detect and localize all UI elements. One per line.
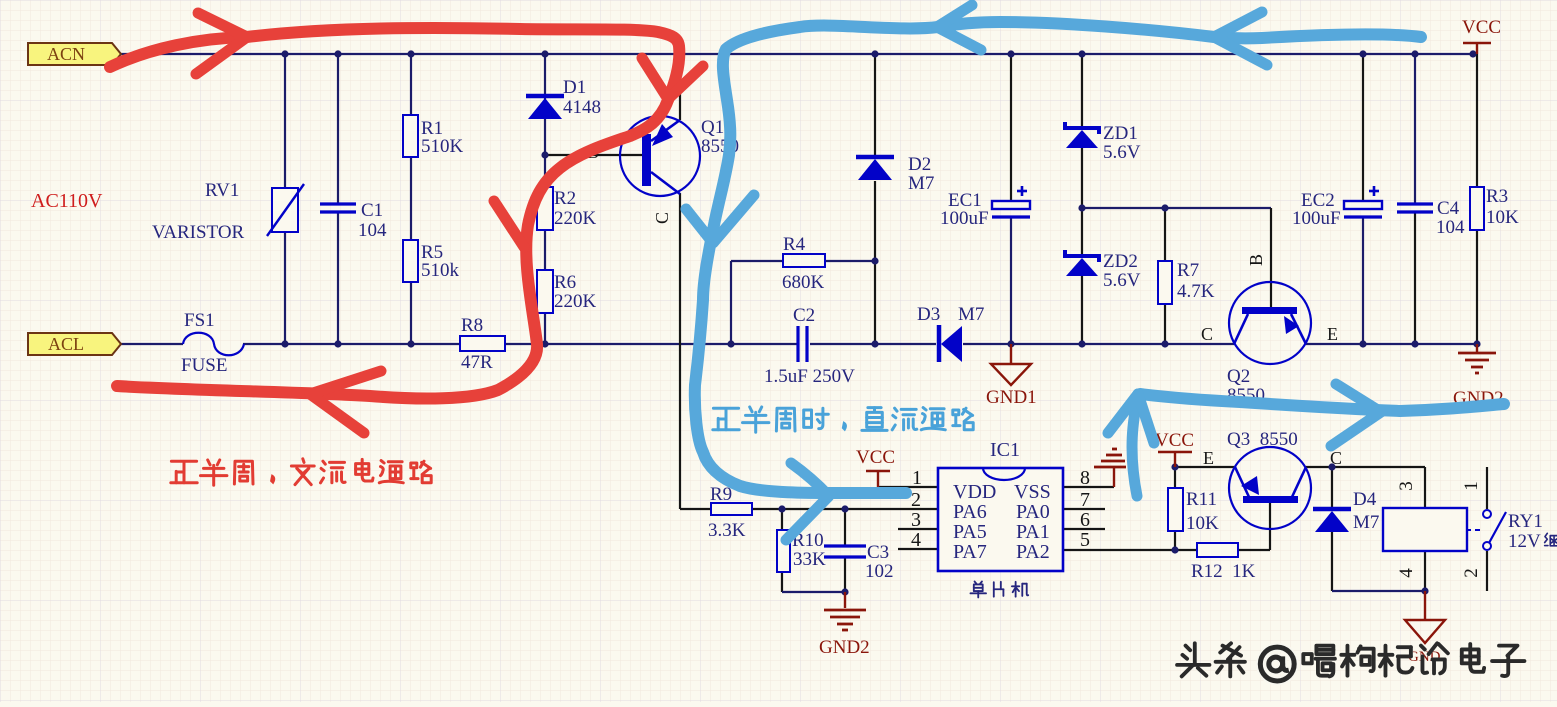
- svg-text:5.6V: 5.6V: [1103, 142, 1141, 163]
- svg-text:R3: R3: [1486, 186, 1508, 207]
- svg-text:D2: D2: [908, 154, 931, 175]
- svg-text:680K: 680K: [782, 272, 825, 293]
- svg-text:510K: 510K: [421, 136, 464, 157]
- svg-text:ZD2: ZD2: [1103, 251, 1138, 272]
- svg-text:8: 8: [1080, 467, 1090, 489]
- svg-text:100uF: 100uF: [940, 208, 989, 229]
- svg-text:VCC: VCC: [856, 447, 895, 468]
- svg-text:M7: M7: [908, 173, 934, 194]
- svg-text:VCC: VCC: [1155, 430, 1194, 451]
- svg-text:10K: 10K: [1186, 513, 1219, 534]
- svg-text:PA7: PA7: [953, 541, 987, 563]
- svg-text:ZD1: ZD1: [1103, 123, 1138, 144]
- svg-text:2: 2: [911, 489, 921, 511]
- svg-text:PA0: PA0: [1016, 501, 1050, 523]
- svg-text:PA6: PA6: [953, 501, 987, 523]
- svg-text:M7: M7: [958, 304, 984, 325]
- svg-text:2: 2: [1461, 568, 1482, 578]
- svg-text:6: 6: [1080, 509, 1090, 531]
- svg-text:4: 4: [1396, 568, 1417, 578]
- svg-text:100uF: 100uF: [1292, 208, 1341, 229]
- svg-text:RY1: RY1: [1508, 511, 1543, 532]
- svg-text:E: E: [1327, 324, 1338, 344]
- svg-text:M7: M7: [1353, 512, 1379, 533]
- svg-text:ACL: ACL: [48, 334, 84, 354]
- svg-text:ACN: ACN: [47, 44, 85, 64]
- svg-text:VDD: VDD: [953, 481, 996, 503]
- svg-text:510k: 510k: [421, 260, 460, 281]
- svg-text:GND2: GND2: [819, 637, 870, 658]
- svg-text:12V: 12V: [1508, 531, 1541, 552]
- svg-text:4148: 4148: [563, 97, 601, 118]
- svg-text:1: 1: [1461, 481, 1482, 491]
- svg-text:102: 102: [865, 561, 894, 582]
- svg-text:VARISTOR: VARISTOR: [152, 222, 245, 243]
- svg-text:C3: C3: [867, 542, 889, 563]
- svg-text:FUSE: FUSE: [181, 355, 227, 376]
- svg-text:PA2: PA2: [1016, 541, 1050, 563]
- svg-text:1.5uF 250V: 1.5uF 250V: [764, 366, 855, 387]
- svg-text:R8: R8: [461, 315, 483, 336]
- svg-text:C: C: [652, 212, 672, 224]
- svg-text:R4: R4: [783, 234, 806, 255]
- svg-text:3: 3: [911, 509, 921, 531]
- svg-text:47R: 47R: [461, 352, 493, 373]
- svg-text:R11: R11: [1186, 489, 1217, 510]
- svg-text:Q3 8550: Q3 8550: [1227, 429, 1298, 450]
- svg-text:B: B: [1246, 254, 1266, 266]
- svg-text:10K: 10K: [1486, 207, 1519, 228]
- svg-text:E: E: [1203, 448, 1214, 468]
- svg-text:R2: R2: [554, 188, 576, 209]
- svg-text:C1: C1: [361, 200, 383, 221]
- svg-text:Q1: Q1: [701, 117, 724, 138]
- svg-text:33K: 33K: [793, 549, 826, 570]
- svg-text:FS1: FS1: [184, 310, 215, 331]
- svg-text:C2: C2: [793, 305, 815, 326]
- svg-text:7: 7: [1080, 489, 1090, 511]
- svg-text:C4: C4: [1437, 198, 1460, 219]
- svg-text:D4: D4: [1353, 489, 1377, 510]
- svg-text:3.3K: 3.3K: [708, 520, 746, 541]
- svg-text:C: C: [1201, 324, 1213, 344]
- svg-text:VSS: VSS: [1014, 481, 1051, 503]
- svg-text:R12 1K: R12 1K: [1191, 561, 1256, 582]
- svg-text:R7: R7: [1177, 260, 1199, 281]
- svg-text:D1: D1: [563, 77, 586, 98]
- svg-text:GND1: GND1: [986, 387, 1037, 408]
- svg-text:104: 104: [358, 220, 387, 241]
- svg-text:R6: R6: [554, 272, 576, 293]
- svg-text:3: 3: [1396, 481, 1417, 491]
- svg-text:D3: D3: [917, 304, 940, 325]
- svg-text:5: 5: [1080, 529, 1090, 551]
- svg-text:IC1: IC1: [990, 439, 1020, 461]
- svg-text:220K: 220K: [554, 291, 597, 312]
- svg-text:Q2: Q2: [1227, 366, 1250, 387]
- svg-text:104: 104: [1436, 217, 1465, 238]
- svg-text:4: 4: [911, 529, 921, 551]
- svg-text:220K: 220K: [554, 208, 597, 229]
- svg-text:5.6V: 5.6V: [1103, 270, 1141, 291]
- svg-text:PA1: PA1: [1016, 521, 1050, 543]
- svg-text:AC110V: AC110V: [31, 190, 103, 212]
- svg-text:1: 1: [912, 467, 922, 489]
- svg-text:VCC: VCC: [1462, 17, 1501, 38]
- svg-text:PA5: PA5: [953, 521, 987, 543]
- svg-text:4.7K: 4.7K: [1177, 281, 1215, 302]
- svg-text:RV1: RV1: [205, 180, 239, 201]
